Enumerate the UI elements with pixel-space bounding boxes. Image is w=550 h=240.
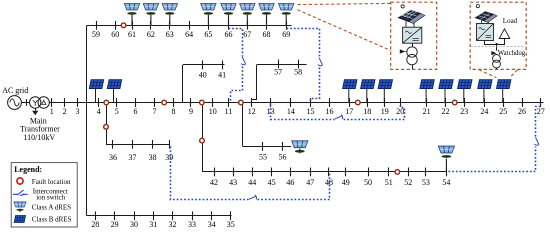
fault F8 riser36 (104, 125, 109, 130)
node bus 50 (368, 168, 370, 177)
wire riser bus12 to 57 branch (252, 65, 257, 100)
node bus 61 (132, 21, 134, 30)
node bus 63 (169, 21, 171, 30)
fault F2 bus7-8 (162, 100, 167, 105)
node bus 41 (222, 61, 224, 70)
svg-text:Transformer: Transformer (20, 125, 60, 134)
wire top branch buses 59-69 (87, 25, 292, 27)
wire branch buses 42-54 (202, 171, 447, 173)
U2 wires (485, 39, 505, 45)
svg-text:44: 44 (248, 178, 256, 187)
svg-text:10: 10 (209, 107, 217, 116)
terminal tick (26, 99, 28, 106)
callout line Class A to detail box lower (298, 10, 391, 51)
svg-text:49: 49 (342, 178, 350, 187)
wire branch buses 36-39 (106, 144, 170, 146)
detail box U1 Class A dRES structure (391, 2, 437, 69)
Class B dRES at bus 17 (343, 80, 357, 103)
Class B dRES at bus 4 (89, 80, 103, 103)
U1 transformer (407, 47, 417, 57)
svg-text:59: 59 (92, 30, 100, 39)
node bus 13 (270, 98, 272, 107)
transformer ground arrow (35, 108, 37, 111)
svg-text:60: 60 (111, 30, 119, 39)
node bus 6 (135, 98, 137, 107)
svg-text:20: 20 (396, 107, 404, 116)
legend box (11, 163, 77, 227)
svg-text:21: 21 (423, 107, 431, 116)
svg-text:1: 1 (50, 107, 54, 116)
svg-text:43: 43 (229, 178, 237, 187)
node bus 60 (115, 21, 117, 30)
svg-text:41: 41 (218, 70, 226, 79)
node bus 30 (134, 211, 136, 220)
svg-text:50: 50 (364, 178, 372, 187)
svg-text:25: 25 (499, 107, 507, 116)
interconnection switch S4 (249, 195, 257, 199)
node bus 67 (247, 21, 249, 30)
Class A dRES at bus 67 (240, 4, 255, 26)
svg-text:Legend:: Legend: (14, 165, 42, 174)
legend Class A symbol (14, 202, 26, 212)
node bus 65 (208, 21, 210, 30)
node bus 44 (252, 168, 254, 177)
Class B dRES at bus 19 (378, 80, 392, 103)
svg-text:55: 55 (259, 152, 267, 161)
svg-text:18: 18 (363, 107, 371, 116)
tie switch 69-15 lower (311, 68, 320, 102)
interconnection switch S5 (534, 137, 539, 145)
U2 PV module (475, 12, 497, 24)
node bus 29 (114, 211, 116, 220)
fault F4 bus11-12 (239, 100, 244, 105)
svg-text:23: 23 (460, 107, 468, 116)
node bus 68 (266, 21, 268, 30)
fault F7 bus60-61 (121, 23, 126, 28)
svg-text:22: 22 (442, 107, 450, 116)
svg-text:56: 56 (279, 152, 287, 161)
node bus 64 (189, 21, 191, 30)
detail box U2 Class B dRES structure (470, 2, 526, 69)
svg-text:6: 6 (134, 107, 138, 116)
tie switch 13-20 right (344, 104, 405, 120)
tie switch 13-20 left (271, 105, 335, 120)
svg-text:5: 5 (115, 107, 119, 116)
node bus 48 (328, 168, 330, 177)
fault F10 bus51-52 (395, 170, 400, 175)
U1 status circle (401, 5, 404, 8)
node bus 32 (172, 211, 174, 220)
Class A dRES at bus 65 (201, 4, 216, 26)
svg-text:15: 15 (307, 107, 315, 116)
U1 PV module (398, 9, 425, 28)
node bus 51 (388, 168, 390, 177)
node bus 10 (212, 98, 214, 107)
node bus 35 (230, 211, 232, 220)
node bus 33 (192, 211, 194, 220)
node bus 58 (298, 60, 300, 69)
node bus 8 (173, 98, 175, 107)
svg-text:31: 31 (149, 220, 157, 229)
Class A dRES at bus 54 (438, 146, 454, 172)
node bus 62 (150, 21, 152, 30)
tie switch 39-48 left (171, 147, 249, 200)
node bus 20 (400, 98, 402, 107)
Class B dRES at bus 5 (107, 80, 121, 103)
svg-text:AC grid: AC grid (2, 86, 28, 95)
U2 watchdog divider (471, 46, 526, 48)
node bus 3 (77, 98, 79, 107)
svg-text:63: 63 (166, 30, 174, 39)
Class A dRES at bus 68 (259, 4, 274, 26)
tie switch 66-11 lower (231, 67, 243, 102)
node bus 16 (329, 98, 331, 107)
svg-text:8: 8 (172, 107, 176, 116)
svg-text:58: 58 (294, 68, 302, 77)
node bus 19 (384, 98, 386, 107)
svg-text:29: 29 (111, 220, 119, 229)
callout line Class B to detail box left (479, 70, 496, 78)
node bus 34 (211, 211, 213, 220)
node bus 28 (95, 211, 97, 220)
tie switch 69-15 upper (287, 29, 320, 57)
svg-text:19: 19 (381, 107, 389, 116)
AC source G1 (8, 96, 22, 110)
interconnection switch S1 (241, 57, 246, 65)
svg-text:Class A dRES: Class A dRES (32, 204, 71, 212)
svg-text:3: 3 (76, 107, 80, 116)
node bus 47 (310, 168, 312, 177)
node bus 56 (282, 142, 284, 151)
node bus 42 (214, 168, 216, 177)
svg-text:33: 33 (188, 220, 196, 229)
Class A dRES at bus 69 (279, 4, 294, 26)
svg-text:7: 7 (153, 107, 157, 116)
svg-text:45: 45 (268, 178, 276, 187)
U2 transformer (493, 55, 501, 63)
node bus 69 (286, 21, 288, 30)
svg-text:2: 2 (63, 107, 67, 116)
node bus 53 (425, 168, 427, 177)
wire riser bus3 down to 28 branch (86, 103, 88, 216)
node bus 39 (169, 140, 171, 149)
node bus 22 (445, 98, 447, 107)
U2 inverter (477, 24, 494, 41)
svg-text:66: 66 (225, 30, 233, 39)
node bus 45 (271, 168, 273, 177)
wire riser bus3 to 59 branch (86, 25, 88, 102)
node bus 55 (262, 142, 264, 151)
legend Class B symbol (14, 216, 26, 223)
svg-text:67: 67 (243, 30, 251, 39)
svg-text:Watchdog: Watchdog (498, 50, 526, 57)
svg-text:39: 39 (165, 153, 173, 162)
node bus 17 (349, 98, 351, 107)
node bus 21 (426, 98, 428, 107)
wire riser bus12 to 55 branch (242, 105, 244, 147)
node bus 38 (152, 140, 154, 149)
svg-text:68: 68 (263, 30, 271, 39)
node bus 4 (98, 98, 100, 107)
svg-text:34: 34 (208, 220, 216, 229)
tie switch 54-27 lower (449, 147, 536, 172)
node bus 27 (540, 98, 542, 107)
svg-text:37: 37 (128, 153, 136, 162)
node bus 49 (345, 168, 347, 177)
fault F3 bus9-10 (200, 100, 205, 105)
node bus 15 (310, 98, 312, 107)
Class A dRES at bus 66 (221, 4, 236, 26)
svg-text:54: 54 (442, 178, 450, 187)
svg-text:61: 61 (128, 30, 136, 39)
svg-text:42: 42 (210, 178, 218, 187)
node bus 46 (290, 168, 292, 177)
node bus 18 (367, 98, 369, 107)
tie switch 66-11 upper (229, 29, 243, 57)
wire branch buses 28-35 (87, 215, 232, 217)
svg-text:Class B dRES: Class B dRES (32, 215, 72, 223)
svg-text:17: 17 (345, 107, 353, 116)
node bus 37 (132, 140, 134, 149)
interconnection switch S3 (335, 115, 343, 119)
main transformer T1 (30, 97, 41, 108)
svg-text:ion switch: ion switch (36, 194, 65, 202)
svg-text:Fault location: Fault location (32, 178, 71, 186)
svg-text:52: 52 (404, 178, 412, 187)
node bus 59 (96, 21, 98, 30)
node bus 25 (503, 98, 505, 107)
fault F9 riser42 (200, 138, 205, 143)
svg-text:40: 40 (199, 70, 207, 79)
svg-text:69: 69 (282, 30, 290, 39)
node bus 7 (154, 98, 156, 107)
U2 wire to box edge (496, 68, 498, 69)
Class A dRES at bus 61 (124, 4, 139, 26)
svg-text:57: 57 (274, 68, 282, 77)
legend interconnection switch symbol (13, 190, 28, 195)
callout line Class B to detail box right (510, 70, 518, 78)
node bus 12 (251, 98, 253, 107)
svg-text:65: 65 (204, 30, 212, 39)
svg-text:12: 12 (248, 107, 256, 116)
svg-text:24: 24 (480, 107, 488, 116)
svg-text:32: 32 (169, 220, 177, 229)
svg-text:27: 27 (537, 107, 545, 116)
callout line Class A to detail box (298, 3, 391, 4)
svg-text:30: 30 (130, 220, 138, 229)
wire main feeder buses 1-27 (49, 102, 543, 104)
fault F5 bus17-18 (356, 100, 361, 105)
svg-text:16: 16 (326, 107, 334, 116)
Class A dRES at branch 55-56 end (292, 141, 308, 153)
U1 wire inverter to transformer (412, 43, 414, 47)
node bus 2 (64, 98, 66, 107)
node bus 9 (190, 98, 192, 107)
legend fault symbol (17, 178, 23, 184)
node bus 43 (233, 168, 235, 177)
wire branch buses 40-41 (183, 64, 225, 66)
svg-text:11: 11 (225, 107, 233, 116)
U2 status circle (476, 5, 479, 8)
node bus 31 (153, 211, 155, 220)
svg-text:14: 14 (287, 107, 295, 116)
node bus 36 (112, 140, 114, 149)
node bus 26 (522, 98, 524, 107)
node bus 1 (51, 98, 53, 107)
tie switch 54-27 upper (536, 104, 541, 137)
svg-text:62: 62 (147, 30, 155, 39)
Class B dRES at bus 18 (361, 80, 375, 103)
fault F6 bus22-23 (452, 100, 457, 105)
node bus 52 (408, 168, 410, 177)
svg-text:64: 64 (185, 30, 193, 39)
Class B dRES at bus 22 (439, 80, 453, 103)
tie switch 39-48 right (258, 174, 330, 200)
Class B dRES at bus 25 (497, 80, 511, 103)
node bus 5 (116, 98, 118, 107)
Class A dRES at bus 63 (162, 4, 177, 26)
wire riser bus4 to 36 branch (106, 103, 108, 145)
Class B dRES at bus 24 (478, 80, 492, 103)
svg-text:47: 47 (306, 178, 314, 187)
svg-text:53: 53 (422, 178, 430, 187)
svg-text:Load: Load (503, 17, 518, 25)
U1 wire to box edge (412, 65, 414, 69)
svg-text:46: 46 (286, 178, 294, 187)
wire riser bus9 to 42 branch (202, 103, 204, 172)
Class B dRES at bus 23 (458, 80, 472, 103)
node bus 23 (464, 98, 466, 107)
fault F1 bus4-5 (104, 100, 109, 105)
node bus 66 (228, 21, 230, 30)
node bus 11 (228, 98, 230, 107)
wire source to transformer (21, 102, 29, 104)
U1 inverter (403, 27, 422, 43)
Class B dRES at bus 21 (420, 80, 434, 103)
svg-text:26: 26 (518, 107, 526, 116)
node bus 40 (202, 61, 204, 70)
svg-text:51: 51 (385, 178, 393, 187)
wire riser bus8 to 40 branch (182, 65, 184, 103)
svg-text:4: 4 (97, 107, 101, 116)
svg-text:38: 38 (149, 153, 157, 162)
node bus 57 (278, 60, 280, 69)
node bus 24 (484, 98, 486, 107)
wire branch buses 55-56 (243, 146, 291, 148)
svg-text:110/10kV: 110/10kV (23, 133, 55, 142)
interconnection switch S2 (318, 58, 323, 66)
wire branch buses 57-58 (257, 64, 307, 66)
Class A dRES at bus 62 (143, 4, 158, 26)
node bus 54 (446, 168, 448, 177)
svg-text:9: 9 (189, 107, 193, 116)
U1 switch arrow (400, 49, 406, 53)
U2 watchdog switch (491, 51, 496, 55)
svg-text:36: 36 (109, 153, 117, 162)
node bus 14 (290, 98, 292, 107)
svg-text:28: 28 (91, 220, 99, 229)
svg-text:35: 35 (227, 220, 235, 229)
